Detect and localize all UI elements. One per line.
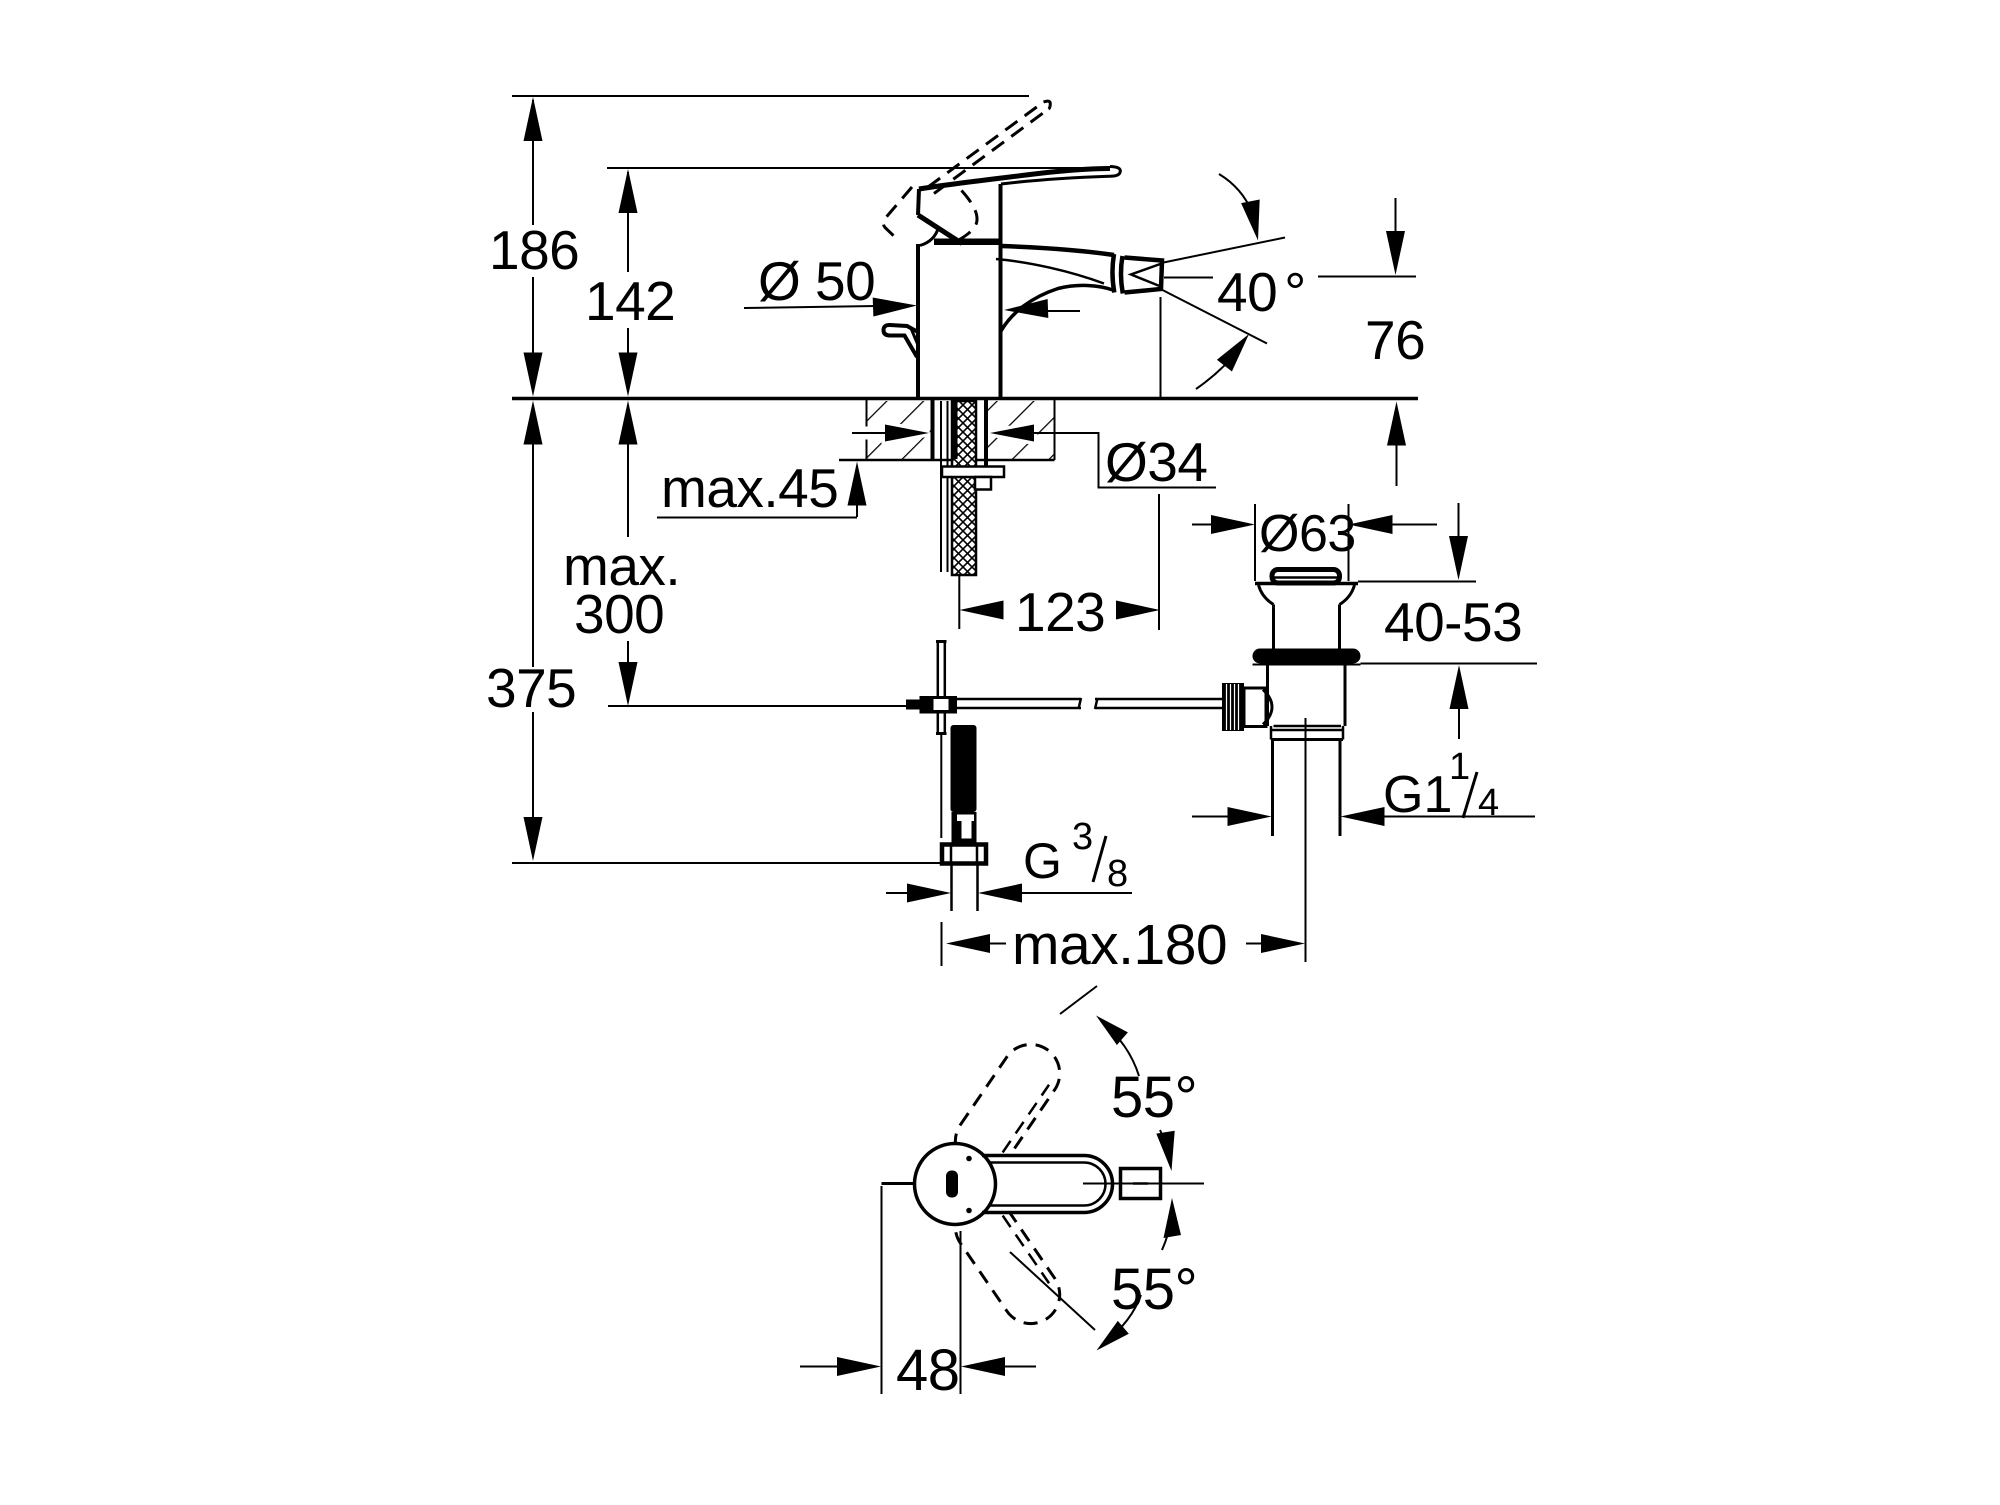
top view knob circle bbox=[915, 1144, 996, 1225]
dimension Ø63 bbox=[1192, 504, 1437, 581]
svg-text:8: 8 bbox=[1107, 853, 1128, 895]
countertop slab hatching right bbox=[988, 401, 1054, 459]
lever handle tip bbox=[1109, 167, 1120, 177]
40 degree arc arrow lower bbox=[1196, 334, 1249, 389]
dimension 123 bbox=[959, 494, 1160, 630]
dimension 375 bottom line bbox=[512, 862, 942, 864]
svg-text:Ø34: Ø34 bbox=[1105, 431, 1207, 493]
threaded stud with crosshatch bbox=[952, 401, 977, 575]
knurled adjusting knob bbox=[1222, 683, 1272, 731]
pop-up rod vertical bbox=[936, 641, 947, 838]
spout top edge bbox=[1001, 246, 1114, 255]
55 degree reference line lower bbox=[1010, 1252, 1095, 1330]
knob center slot bbox=[946, 1156, 972, 1214]
dimension G3/8 arrows bbox=[886, 884, 1132, 903]
40 degree spray angle lines bbox=[1162, 238, 1286, 344]
aerator tip (mousseur) bbox=[1125, 258, 1164, 293]
faucet body right edge and lever back edge bbox=[999, 184, 1003, 397]
svg-text:142: 142 bbox=[585, 270, 675, 332]
svg-text:Ø63: Ø63 bbox=[1259, 505, 1356, 563]
dimension 142 vertical line with arrows bbox=[619, 169, 638, 706]
supply pipes in shank bbox=[941, 401, 948, 572]
top view lever white mask bbox=[915, 1144, 1113, 1225]
G3/8 supply pipe bbox=[952, 864, 978, 911]
shank hole right wall bbox=[984, 400, 988, 477]
svg-text:186: 186 bbox=[489, 219, 579, 281]
svg-text:3: 3 bbox=[1072, 816, 1093, 858]
countertop slab hatching left bbox=[868, 401, 931, 459]
dimension 186 vertical line with arrows bbox=[524, 97, 543, 861]
dimension 186 top extension line bbox=[512, 95, 1029, 97]
max.300 extension line at pop-up rod bbox=[608, 705, 906, 707]
svg-text:max.45: max.45 bbox=[661, 457, 838, 519]
pop-up rod junction clamp bbox=[906, 696, 957, 714]
spout bottom edge bbox=[1001, 285, 1113, 331]
svg-text:1: 1 bbox=[1449, 746, 1470, 788]
spout inner contour bbox=[996, 259, 1104, 284]
dimension 142 extension line bbox=[607, 167, 1108, 169]
55 degree arc lower bbox=[1097, 1198, 1182, 1351]
lever handle top edge bbox=[919, 169, 1110, 190]
svg-text:40-53: 40-53 bbox=[1384, 591, 1522, 653]
drain flange bbox=[1255, 584, 1358, 605]
flexible supply hose bbox=[951, 725, 977, 812]
dimension 48 bbox=[800, 1186, 1036, 1394]
svg-text:max.180: max.180 bbox=[1012, 913, 1227, 977]
svg-text:300: 300 bbox=[574, 583, 664, 645]
shank hole left wall bbox=[931, 400, 935, 461]
mounting bracket bbox=[975, 477, 991, 490]
top view lever outline bbox=[982, 1156, 1113, 1213]
dimension G1 1/4 arrows bbox=[1192, 807, 1535, 826]
label max.45 with leader bbox=[657, 457, 867, 519]
G3/8 hex nut bbox=[942, 845, 986, 864]
drain O-ring seal bbox=[1253, 649, 1361, 664]
temperature limit stop tab on body bbox=[884, 325, 919, 357]
dimension Ø34 arrows with white halo bbox=[852, 425, 1216, 488]
svg-text:Ø 50: Ø 50 bbox=[758, 250, 875, 312]
svg-text:G: G bbox=[1023, 833, 1062, 889]
dashed raised handle base outline left bbox=[883, 187, 912, 240]
svg-text:40°: 40° bbox=[1217, 261, 1306, 323]
svg-text:4: 4 bbox=[1478, 782, 1499, 824]
spout nub in top view bbox=[1083, 1169, 1204, 1199]
dashed raised lever blade bbox=[928, 101, 1050, 193]
svg-text:375: 375 bbox=[486, 657, 576, 719]
55 degree arc upper bbox=[1096, 1016, 1175, 1172]
svg-text:55°: 55° bbox=[1111, 1257, 1197, 1322]
svg-text:123: 123 bbox=[1015, 581, 1105, 643]
dark gap bar between handle base and body bbox=[934, 239, 1001, 246]
hose end fitting bbox=[952, 812, 977, 843]
dashed raised handle base outline right bbox=[957, 191, 977, 242]
drain body bottom rim bbox=[1271, 726, 1343, 740]
mounting surface line bbox=[512, 397, 1418, 401]
dimension 40-53 bbox=[1358, 503, 1537, 739]
dashed rotated handle position lower bbox=[944, 1187, 1071, 1335]
drain tailpipe bbox=[1273, 740, 1341, 836]
dimension 76 bbox=[1318, 198, 1416, 486]
svg-text:48: 48 bbox=[896, 1338, 960, 1403]
dimension Ø50 arrows bbox=[744, 296, 1080, 319]
handle base wedge bbox=[918, 189, 962, 246]
spray projection line to surface bbox=[1160, 297, 1162, 397]
40 degree arc arrow upper bbox=[1219, 174, 1260, 241]
pop-up rod tail in top view bbox=[882, 1182, 916, 1185]
aerator ring bbox=[1112, 254, 1122, 294]
dashed rotated handle position upper bbox=[944, 1033, 1071, 1181]
55 degree reference line upper bbox=[1060, 986, 1097, 1014]
drain neck bbox=[1274, 605, 1340, 650]
svg-text:76: 76 bbox=[1365, 309, 1425, 371]
horseshoe washer under slab bbox=[942, 467, 1004, 478]
svg-text:55°: 55° bbox=[1111, 1065, 1197, 1130]
lever handle underside bbox=[1001, 176, 1109, 184]
dimension max.180 bbox=[942, 718, 1306, 966]
svg-text:G1: G1 bbox=[1383, 766, 1452, 824]
slab bottom line bbox=[839, 400, 1055, 460]
faucet body left edge bbox=[916, 244, 920, 397]
horizontal pop-up rod arm bbox=[957, 698, 1226, 709]
label G1 1/4 bbox=[1383, 746, 1499, 824]
drain valve body bbox=[1253, 664, 1361, 726]
drain pushbutton cap bbox=[1272, 570, 1340, 584]
label G3/8 bbox=[1023, 816, 1128, 895]
